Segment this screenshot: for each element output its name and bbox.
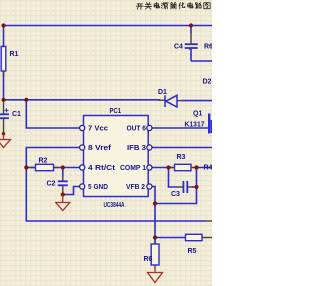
svg-text:UC3844A: UC3844A [104, 202, 125, 209]
svg-text:IFB 3: IFB 3 [127, 145, 146, 152]
svg-text:5 GND: 5 GND [88, 184, 108, 191]
svg-text:R5: R5 [188, 248, 197, 255]
svg-text:PC1: PC1 [110, 108, 122, 115]
svg-text:R6: R6 [204, 44, 212, 51]
svg-text:C1: C1 [12, 111, 21, 118]
svg-text:R4: R4 [204, 165, 213, 172]
svg-text:4 Rt/Ct: 4 Rt/Ct [88, 165, 116, 172]
svg-text:D2: D2 [203, 79, 212, 86]
svg-text:7 Vcc: 7 Vcc [88, 126, 108, 133]
svg-text:OUT 6: OUT 6 [127, 126, 147, 133]
svg-text:R6: R6 [144, 256, 153, 263]
svg-text:Q1: Q1 [193, 111, 202, 118]
svg-text:R3: R3 [177, 154, 186, 161]
svg-text:VFB 2: VFB 2 [126, 184, 145, 191]
svg-text:8 Vref: 8 Vref [88, 145, 112, 152]
svg-text:COMP 1: COMP 1 [120, 165, 146, 172]
svg-text:R1: R1 [10, 51, 19, 58]
svg-text:R2: R2 [39, 158, 48, 165]
svg-text:C2: C2 [47, 181, 56, 188]
svg-text:D1: D1 [158, 89, 167, 96]
svg-text:C3: C3 [171, 191, 180, 198]
svg-text:C4: C4 [174, 44, 183, 51]
svg-text:K1317: K1317 [185, 122, 205, 129]
